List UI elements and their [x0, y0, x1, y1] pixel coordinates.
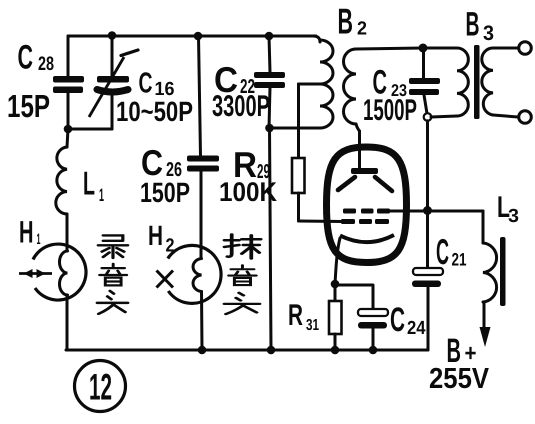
arrow to B+: [480, 327, 491, 347]
svg-text:2: 2: [357, 19, 367, 40]
text 录音头 (recording head): [97, 235, 127, 314]
text 抹音头 (erase head): [224, 234, 260, 314]
node rail C24: [369, 346, 378, 355]
wire R31 to rail: [334, 334, 337, 350]
wire L3 elbow: [482, 211, 485, 243]
x mark inside H2: [157, 271, 174, 288]
svg-text:H: H: [148, 220, 163, 251]
svg-text:10~50P: 10~50P: [116, 96, 193, 127]
wire C21 to rail: [427, 287, 430, 350]
svg-text:L: L: [83, 165, 95, 202]
svg-text:28: 28: [38, 53, 54, 75]
wire junction to screen line: [426, 121, 429, 210]
wire B2 left winding bottom to C22 line: [270, 127, 321, 130]
node top rail C16: [108, 31, 117, 40]
svg-text:3: 3: [483, 22, 494, 45]
svg-text:255V: 255V: [429, 363, 490, 395]
node at C28 bottom: [64, 125, 73, 134]
wire C16 top lead: [111, 36, 114, 76]
wire cathode to R31: [334, 284, 337, 301]
wire screen lead to L3: [389, 210, 483, 213]
tube grid row 2: [341, 219, 355, 224]
head H2 (erase head): [168, 245, 221, 303]
capacitor C23: [409, 78, 440, 84]
node top rail C22: [265, 32, 274, 41]
node rail R31: [331, 346, 340, 355]
node cathode junction: [331, 280, 340, 289]
svg-text:R: R: [288, 299, 303, 332]
wire C23 top lead: [422, 48, 425, 78]
wire B+ lead: [483, 302, 486, 330]
node top rail C26: [194, 32, 203, 41]
capacitor C21: [413, 268, 443, 275]
wire C22 line to ground rail: [270, 128, 272, 350]
svg-text:B: B: [466, 6, 480, 44]
transformer B3 right winding: [482, 48, 493, 115]
tube cathode: [340, 235, 394, 242]
tube screen dashes (slanted): [338, 177, 392, 191]
capacitor C22: [254, 72, 285, 78]
L3 core bar: [500, 237, 506, 306]
svg-text:B: B: [338, 1, 354, 42]
wire C26 top lead: [199, 36, 201, 156]
node screen line / C21: [423, 206, 432, 215]
wire B2 right winding top lead: [355, 48, 423, 49]
wire C21 top lead: [426, 210, 429, 268]
wire bottom rail: [66, 349, 428, 352]
capacitor C24: [358, 309, 388, 316]
svg-text:1500P: 1500P: [363, 94, 417, 127]
node C22 bottom: [265, 124, 274, 133]
wire R29 to grid: [297, 193, 300, 221]
resistor R31: [329, 301, 342, 334]
svg-text:31: 31: [306, 317, 319, 334]
svg-text:1: 1: [99, 185, 104, 205]
node B2/C23/B3: [419, 44, 428, 53]
svg-text:2: 2: [166, 236, 175, 257]
wire C24 to rail: [372, 329, 375, 350]
wire cathode lead: [335, 238, 340, 284]
capacitor C16 (variable): [97, 76, 129, 83]
transformer B2 left winding: [312, 36, 320, 42]
svg-text:3300P: 3300P: [212, 90, 270, 123]
svg-text:C: C: [390, 301, 405, 339]
wire grid lead: [299, 220, 343, 224]
svg-text:15P: 15P: [7, 88, 50, 124]
capacitor C28: [53, 76, 84, 83]
wire C16 bottom lead: [111, 95, 114, 129]
transformer B3 left winding: [423, 47, 457, 50]
wire C23 bottom lead: [424, 95, 427, 114]
inductor L3: [483, 243, 497, 302]
arrow of variable capacitor C16: [89, 57, 124, 117]
node rail H2: [198, 346, 207, 355]
wire top rail: [68, 35, 316, 38]
wire C28 bottom lead: [67, 92, 70, 129]
svg-text:24: 24: [407, 318, 426, 339]
svg-text:100K: 100K: [219, 177, 277, 207]
svg-text:C: C: [18, 39, 34, 77]
tube V1 envelope: [327, 147, 407, 263]
inductor L1: [67, 129, 68, 147]
wire link C28-C16 bottom: [68, 128, 112, 131]
svg-text:C: C: [436, 231, 449, 272]
figure number 12: [75, 361, 126, 412]
terminal top output: [519, 42, 532, 55]
capacitor C26: [187, 156, 219, 162]
tube grid row 1: [343, 209, 356, 214]
svg-text:H: H: [19, 215, 34, 250]
terminal bottom output: [519, 111, 532, 124]
wire B3 secondary top lead: [493, 47, 518, 50]
wire B3 secondary bottom lead: [493, 115, 518, 117]
svg-text:12: 12: [89, 367, 112, 408]
wire cathode to C24: [335, 285, 373, 309]
head H1 (recording head): [33, 244, 86, 300]
wire C22 bottom lead: [269, 87, 270, 128]
wire tap to R29: [297, 84, 300, 158]
tube plate: [351, 168, 378, 174]
wire plate lead: [358, 131, 361, 167]
svg-text:150P: 150P: [140, 177, 190, 208]
svg-text:1: 1: [37, 231, 41, 248]
wire C26 bottom lead: [200, 171, 203, 259]
wire C22 top lead: [269, 36, 270, 72]
svg-text:C: C: [139, 68, 153, 100]
arrow inside H1: [19, 272, 52, 275]
wire B2 tap: [299, 83, 321, 86]
wire C28 top lead: [67, 36, 70, 76]
svg-text:21: 21: [452, 250, 467, 270]
transformer B3 core: [474, 45, 480, 119]
svg-text:3: 3: [508, 206, 519, 227]
node rail C22: [267, 346, 276, 355]
resistor R29: [292, 158, 305, 193]
node small circle B3 bottom junction: [424, 113, 432, 121]
transformer B2 right winding: [344, 49, 357, 124]
